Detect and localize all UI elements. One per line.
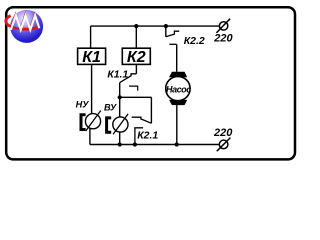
node A (VU / K2.1 junction) [118, 95, 122, 99]
motor top brush [169, 72, 187, 77]
motor M1 body [166, 76, 190, 100]
contact K2.1 fixed seat [135, 128, 143, 145]
logo sphere [10, 10, 43, 43]
svg-text:К1: К1 [82, 49, 101, 66]
motor bottom brush [169, 100, 187, 105]
wire K1.1 to node A [119, 83, 121, 98]
node K2.1 on bottom bus [133, 142, 137, 146]
contact K2.2 blade [166, 31, 179, 37]
border frame [6, 7, 295, 159]
relay coil K1 [78, 48, 106, 66]
wire node A to K2.1 [120, 96, 152, 98]
terminal 220 top slash [216, 19, 230, 33]
level sensor NU actuating stroke [86, 111, 101, 131]
svg-text:Насос: Насос [166, 84, 191, 94]
wire VU to bottom bus [119, 132, 121, 144]
terminal 220 bottom circle [219, 140, 228, 149]
contact K1.1 blade [120, 74, 137, 83]
level sensor VU bracket [107, 118, 112, 132]
wire bottom bus [90, 144, 219, 146]
wire K1 to NU sensor [91, 64, 93, 113]
wire NU to bottom bus [89, 129, 91, 145]
contact K2.1 top terminal [150, 97, 152, 123]
svg-text:НУ: НУ [76, 99, 90, 109]
terminal 220 top circle [219, 22, 227, 30]
node motor on bottom bus [175, 142, 179, 146]
contact K2.2 fixed seat [169, 43, 176, 45]
logo monogram red shadow [11, 14, 39, 29]
logo red ring arc [6, 16, 39, 29]
svg-text:К2.1: К2.1 [137, 130, 158, 141]
logo monogram white M [11, 15, 40, 29]
level sensor NU bracket [81, 115, 86, 130]
level sensor VU actuating stroke [113, 114, 128, 134]
svg-text:К2: К2 [127, 49, 146, 66]
contact K2.2 top terminal [165, 26, 167, 37]
node VU on bottom bus [118, 142, 122, 146]
contact K2.1 blade [132, 117, 152, 123]
terminal 220 bottom slash [217, 138, 231, 152]
svg-text:220: 220 [213, 127, 233, 139]
wire K1 drop from top bus [90, 26, 92, 48]
level sensor VU circle [113, 117, 128, 132]
wire K2 drop from top bus [135, 26, 137, 48]
wire K2.2 to motor [176, 44, 178, 72]
svg-text:К2.2: К2.2 [184, 36, 205, 47]
node top bus / K2.2 [164, 24, 168, 28]
relay coil K2 [122, 48, 150, 66]
wire top bus [91, 25, 220, 27]
wire motor to bottom bus [176, 105, 178, 144]
svg-text:ВУ: ВУ [104, 102, 117, 112]
node top bus / K2 coil [134, 24, 138, 28]
level sensor NU circle [85, 114, 100, 129]
svg-text:220: 220 [213, 33, 233, 45]
wire K2 to contact K1.1 [135, 64, 137, 73]
contact K1.1 fixed seat [129, 86, 138, 91]
wire node A to VU sensor [119, 97, 121, 117]
